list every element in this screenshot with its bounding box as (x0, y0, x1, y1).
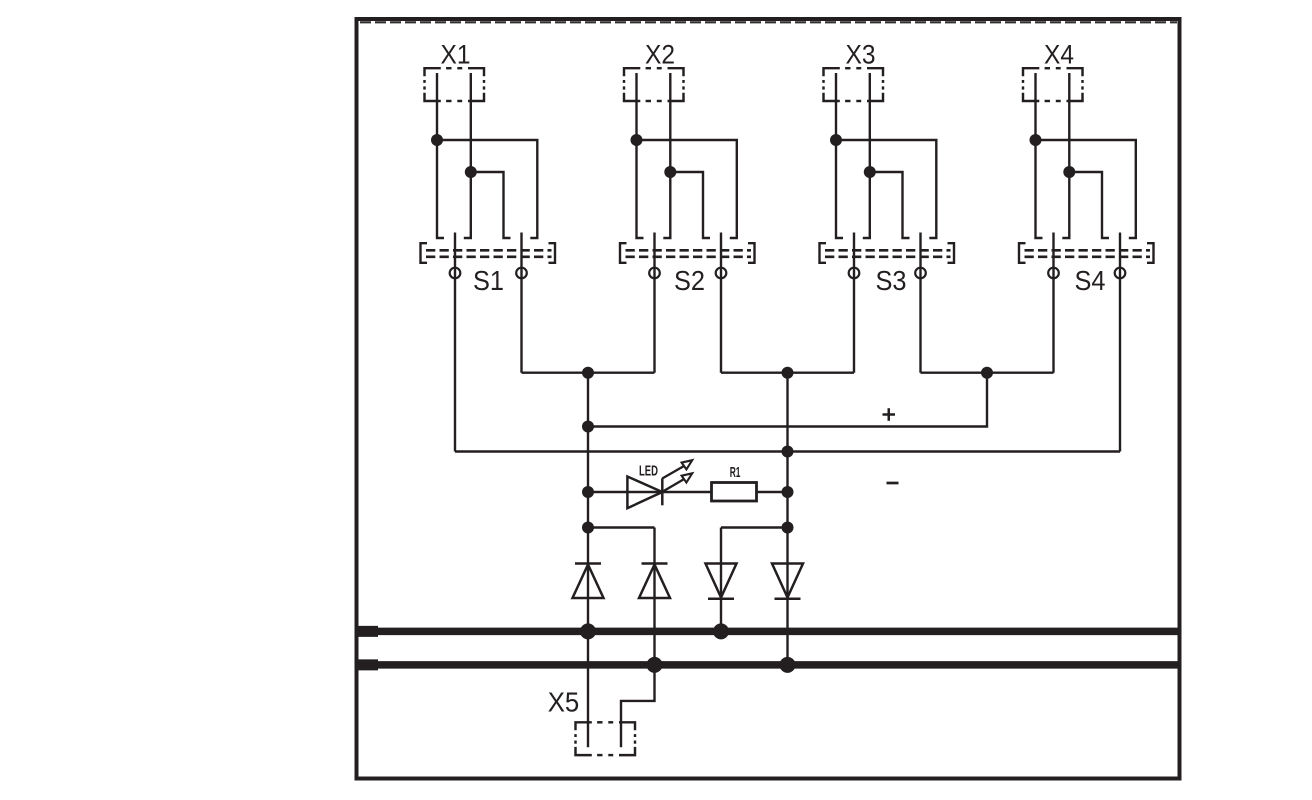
junction dot on X4 pin 1 (1030, 134, 1042, 146)
wire diode branch 3 (720, 528, 722, 632)
diode V2 (639, 564, 670, 599)
contact circle S3 left (849, 268, 860, 279)
wire X2 pin 2 (663, 73, 670, 238)
wire branch from pin 1 (437, 140, 537, 238)
wire branch from pin 2 (471, 172, 511, 238)
wire X4 pin 2 (1062, 73, 1069, 238)
wire S2-S3 link (721, 372, 854, 374)
label + (883, 408, 896, 421)
wire S4 left contact pin (1052, 233, 1054, 373)
wire branch from pin 2 (870, 172, 910, 238)
wire X1 pin 2 (464, 73, 471, 238)
switch S3 strip (820, 243, 955, 263)
junction dot on X3 pin 1 (830, 134, 842, 146)
wire S4 right contact pin (1119, 233, 1121, 452)
wire S3-S4 link (921, 372, 1054, 374)
bus bar 2 end stub (357, 659, 379, 670)
switch S4 strip (1019, 243, 1154, 263)
svg-text:LED: LED (639, 463, 658, 480)
junction dot LED row left (582, 486, 594, 498)
connector X1 (425, 68, 485, 101)
svg-text:X4: X4 (1044, 40, 1074, 70)
label - (887, 482, 899, 485)
svg-text:S2: S2 (674, 265, 705, 296)
wire S3 right contact pin (919, 233, 921, 373)
contact circle S4 right (1115, 268, 1126, 279)
wire minus rail (455, 450, 1120, 452)
wire top inner dashed artifact (360, 21, 1177, 23)
node A junction dot (582, 367, 594, 379)
node C junction dot (981, 367, 993, 379)
wire S1 left contact pin (454, 233, 456, 452)
wire branch from pin 1 (1036, 140, 1136, 238)
junction dot bus2 branch2 (647, 657, 663, 673)
diode V3 (706, 564, 737, 599)
node B junction dot (782, 367, 794, 379)
svg-text:S4: S4 (1075, 265, 1106, 296)
wire X4 pin 1 (1036, 73, 1043, 238)
contact circle S3 right (915, 268, 926, 279)
wire S1 right contact pin (520, 233, 522, 373)
junction dot plus rail (582, 421, 594, 433)
svg-text:X3: X3 (846, 40, 876, 70)
contact circle S2 right (716, 268, 727, 279)
junction dot stub right (782, 522, 794, 534)
wire LED row (588, 491, 788, 493)
wire X3 pin 2 (863, 73, 870, 238)
contact circle S1 left (450, 268, 461, 279)
connector X4 (1023, 68, 1083, 101)
border frame (357, 19, 1180, 779)
wire S2 left contact pin (653, 233, 655, 373)
bus bar 2 (357, 661, 1180, 669)
diode V4 (772, 564, 803, 599)
contact circle S1 right (516, 268, 527, 279)
wire X2 pin 1 (637, 73, 644, 238)
junction dot on X1 pin 1 (431, 134, 443, 146)
wire X1 pin 1 (437, 73, 444, 238)
wire S3 left contact pin (853, 233, 855, 373)
diode V1 (573, 564, 604, 599)
connector X3 (824, 68, 884, 101)
wire plus rail (588, 373, 987, 427)
svg-text:X5: X5 (548, 687, 580, 718)
node B vertical wire (786, 373, 788, 665)
junction dot on X2 pin 1 (631, 134, 643, 146)
wire X3 pin 1 (836, 73, 843, 238)
bus bar 1 end stub (357, 626, 379, 637)
contact circle S4 left (1048, 268, 1059, 279)
svg-text:S1: S1 (473, 265, 504, 296)
contact circle S2 left (649, 268, 660, 279)
wire diode branch 2 (621, 528, 655, 748)
svg-text:S3: S3 (876, 265, 907, 296)
junction dot on X4 pin 2 (1063, 166, 1075, 178)
wire branch from pin 2 (670, 172, 710, 238)
junction dot stub left (582, 522, 594, 534)
connector X5 (576, 722, 636, 755)
svg-text:X2: X2 (645, 40, 675, 70)
wire S2 right contact pin (720, 233, 722, 373)
resistor R1 (712, 483, 757, 502)
junction dot bus1 branch1 (580, 623, 596, 639)
junction dot bus2 branch4 (780, 657, 796, 673)
connector X2 (624, 68, 684, 101)
node A vertical wire (587, 373, 589, 748)
wire diode stub left (588, 526, 655, 528)
switch S2 strip (620, 243, 755, 263)
wire branch from pin 2 (1069, 172, 1109, 238)
wire branch from pin 1 (637, 140, 737, 238)
switch S1 strip (421, 243, 556, 263)
svg-text:R1: R1 (730, 464, 741, 481)
junction dot on X3 pin 2 (864, 166, 876, 178)
junction dot on X1 pin 2 (465, 166, 477, 178)
wire diode stub right (721, 526, 788, 528)
bus bar 1 (357, 628, 1180, 636)
wire branch from pin 1 (836, 140, 936, 238)
junction dot bus1 branch3 (713, 623, 729, 639)
junction dot minus rail (782, 446, 794, 458)
junction dot LED row right (782, 486, 794, 498)
svg-text:X1: X1 (441, 40, 471, 70)
junction dot on X2 pin 2 (664, 166, 676, 178)
wire S1-S2 link (522, 372, 655, 374)
LED D-LED symbol (627, 460, 692, 508)
